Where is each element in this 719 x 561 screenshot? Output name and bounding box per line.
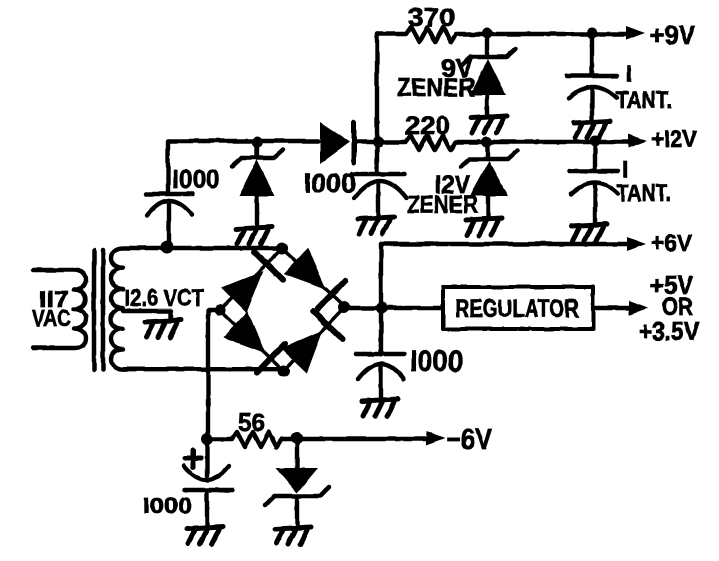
- svg-text:I000: I000: [410, 345, 463, 378]
- svg-text:I: I: [626, 60, 632, 86]
- svg-text:ZENER: ZENER: [407, 191, 478, 219]
- svg-text:I000: I000: [143, 493, 192, 518]
- svg-text:220: 220: [405, 112, 450, 140]
- svg-text:TANT.: TANT.: [617, 180, 671, 207]
- svg-text:56: 56: [238, 407, 265, 437]
- svg-text:I000: I000: [172, 164, 220, 194]
- svg-text:REGULATOR: REGULATOR: [455, 295, 579, 323]
- svg-text:+9V: +9V: [650, 20, 696, 50]
- svg-text:VAC: VAC: [32, 305, 71, 331]
- svg-text:370: 370: [408, 4, 455, 32]
- svg-text:I2.6 VCT: I2.6 VCT: [124, 285, 204, 312]
- svg-text:+3.5V: +3.5V: [639, 316, 700, 346]
- svg-text:I: I: [622, 156, 628, 182]
- svg-text:+6V: +6V: [651, 230, 692, 257]
- svg-text:+I2V: +I2V: [651, 126, 697, 153]
- svg-text:ZENER: ZENER: [397, 74, 475, 102]
- svg-text:TANT.: TANT.: [616, 87, 672, 114]
- svg-text:−6V: −6V: [446, 424, 493, 456]
- svg-text:I000: I000: [304, 168, 356, 198]
